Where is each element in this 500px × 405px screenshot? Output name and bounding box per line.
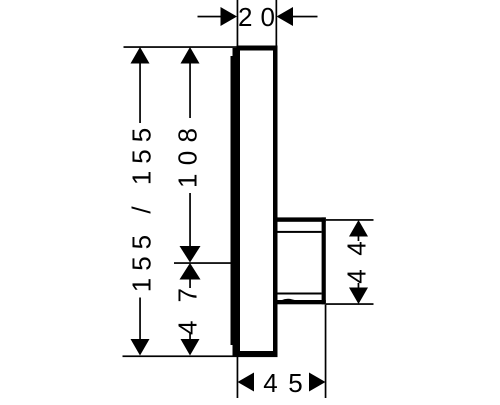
dim 108 arrow bottom [180, 246, 201, 263]
dim 47 arrow top [180, 263, 201, 280]
dim 155/155 line lower [139, 298, 141, 340]
dim 20 arrow left [221, 7, 238, 26]
valve body inner line upper [278, 231, 322, 233]
plate right edge [273, 46, 278, 356]
dim 20 tail left [198, 16, 222, 18]
valve body bottom edge freehand wave [281, 299, 299, 302]
dim 47 line upper [189, 279, 191, 288]
dim 45 arrow left [238, 373, 255, 392]
dim 45 extension line left [237, 356, 239, 398]
dim 155/155 arrow bottom [131, 339, 150, 356]
valve body inner line lower [278, 293, 322, 295]
svg-text:2 0: 2 0 [238, 2, 275, 32]
dim 44 arrow top [349, 220, 368, 237]
dim 20 extension line left [237, 0, 239, 47]
dim 45 extension line right [325, 305, 327, 399]
svg-text:4 5: 4 5 [263, 368, 303, 398]
dim 155/155 line upper [139, 63, 141, 123]
dim 108 line lower [189, 193, 191, 247]
dim 44 line lower stub [358, 283, 360, 288]
dim 44 line upper stub [358, 236, 360, 241]
valve body right edge [322, 217, 326, 304]
valve body top edge [277, 217, 326, 221]
dim 20 tail right [293, 16, 318, 18]
dim 47 line lower [189, 333, 191, 340]
dim 108 line upper [189, 63, 191, 118]
left top extension line [124, 46, 237, 48]
dim 155/155 arrow top [131, 47, 150, 64]
left bottom extension line [123, 355, 278, 357]
dim 44 extension line bottom [326, 303, 374, 305]
plate left edge [233, 48, 241, 353]
plate left edge outer profile [231, 56, 235, 345]
left middle extension line [174, 262, 234, 264]
dim 44 extension line top [326, 219, 374, 221]
plate bottom edge [233, 351, 278, 356]
svg-text:108: 108 [172, 128, 202, 188]
plate top edge [237, 46, 278, 51]
dim 20 arrow right [277, 7, 294, 26]
valve body bottom edge [277, 300, 326, 304]
svg-text:155 / 155: 155 / 155 [127, 128, 157, 293]
dim 45 arrow right [309, 373, 326, 392]
dim 47 arrow bottom [181, 339, 200, 356]
dim 20 extension line right [276, 0, 278, 47]
dim 44 arrow bottom [349, 288, 368, 305]
dim 108 arrow top [181, 47, 200, 64]
